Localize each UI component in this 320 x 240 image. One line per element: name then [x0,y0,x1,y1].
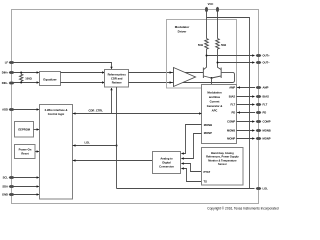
wire PD pin [237,112,255,114]
block Referenceless CDR and Retimer [105,70,129,88]
wire CDR_CTRL [73,113,202,115]
pin pad LF [9,61,15,64]
wire tail current to bias block [211,78,213,85]
node junction DIN+ / R1 [20,72,22,74]
transistor Q2 collector [218,51,222,70]
block Power-On Reset [15,145,36,159]
wire LOL vertical from CDR [116,87,118,189]
pin pad PD [256,111,262,114]
wire OUT- [218,62,255,64]
arrow into driver amp bottom [170,81,173,83]
node junction OUT- [217,62,219,64]
wire CDR output bottom loop to right transistor base [129,72,235,82]
wire BIAS pin [237,96,255,98]
pin pad COMP [256,120,262,123]
pin pad GND [9,193,15,196]
transistor Q2 emitter [212,76,222,78]
wire equalizer to CDR top [61,72,105,74]
pin pad VCC right [216,7,219,13]
wire LOL to pin [117,188,255,190]
pin pad ADD [9,108,15,111]
wire DIN- [12,82,39,84]
transistor Q1 base bar [202,68,205,79]
node emitter junction [211,77,213,79]
wire AMP pin [237,87,255,89]
block EEPROM [15,122,34,138]
wire VCC rail to right side [207,18,250,189]
block Analog to Digital Conversion [153,152,181,174]
wire SDA input [12,186,39,188]
svg-text:Modulator: Modulator [175,25,190,29]
pin pad VCC left [205,7,208,13]
transistor Q1 emitter [204,76,212,78]
block Equalizer [40,72,61,86]
node junction OUT+ [206,55,208,57]
transistor Q1 collector [204,51,207,70]
wire ADD input [12,109,39,111]
wire ADC to control logic [73,160,153,162]
svg-text:Driver: Driver [178,30,188,34]
wire COMP pin [237,121,255,123]
wire equalizer to CDR bottom [61,82,105,84]
wire PTAT to ADC [181,164,201,172]
pin pad FLT [256,103,262,106]
wire OUT+ [207,55,255,57]
pin pad OUT- [256,61,262,64]
pin pad SDA [9,185,15,188]
block 2-Wire interface and Control logic [40,105,73,200]
svg-text:Equalizer: Equalizer [43,78,57,82]
pin pad LOL [256,187,262,190]
chip outer border [12,10,259,204]
pin pad BIAS [256,95,262,98]
wire EEPROM to control logic [34,129,39,131]
wire CDR output top to driver [129,72,204,74]
resistor R3 50 ohm [216,39,220,52]
wire MONB to ADC [181,125,201,154]
wire SCL input [12,177,39,179]
pin pad OUT+ [256,54,262,57]
pin pad AMP [256,86,262,89]
svg-text:Copyright © 2016, Texas Instru: Copyright © 2016, Texas Instruments Inco… [207,206,278,210]
wire DIN+ [12,72,39,74]
block Band-Gap Analog References Power Supply Monitor Temperature Sensor [202,148,244,186]
pin pad SCL [9,176,15,179]
pin pad DIN+ [9,71,15,74]
wire MONP pin [237,138,255,140]
op-amp driver amplifier triangle [174,68,196,87]
node junction LOL tee [116,145,118,147]
wire POR to control logic [35,151,39,153]
wire LOL to control logic [73,145,117,147]
resistor R2 50 ohm [205,39,209,52]
pin pad DIN- [9,82,15,85]
wire FLT pin [237,104,255,106]
wire CDR_CTRL branch up to CDR [111,88,113,114]
wire TS to ADC [181,169,201,182]
wire MONB pin [237,130,255,132]
wire MONP to ADC [181,134,201,159]
resistor R1 100 ohm input termination [20,73,23,83]
pin pad MONP [256,137,262,140]
wire GND input [12,194,39,196]
block Modulation and Bias Current Generator and APC [202,85,237,144]
transistor Q2 base bar [220,68,223,79]
node junction DIN- / R1 [20,82,22,84]
wire LF input [12,63,112,69]
pin pad MONB [256,129,262,132]
container box Modulator Driver [167,20,237,89]
arrow into driver amp top [170,71,173,73]
wire VCC stub right [217,10,219,39]
wire VCC stub left [206,10,208,39]
